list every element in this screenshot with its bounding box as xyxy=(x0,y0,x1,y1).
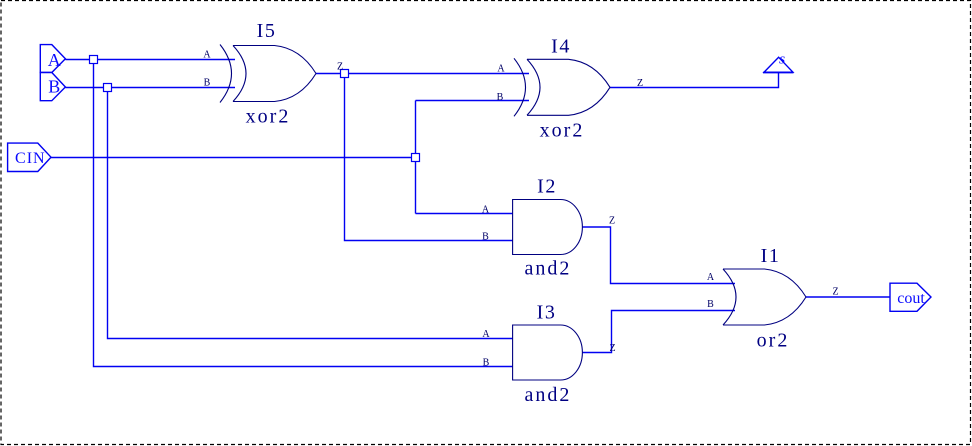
svg-text:CIN: CIN xyxy=(15,150,46,167)
svg-text:cout: cout xyxy=(897,290,925,307)
svg-text:A: A xyxy=(707,272,715,283)
svg-text:I1: I1 xyxy=(761,245,781,267)
svg-text:B: B xyxy=(497,92,504,103)
svg-text:I3: I3 xyxy=(537,302,557,324)
svg-text:B: B xyxy=(707,299,714,310)
svg-text:xor2: xor2 xyxy=(246,106,291,128)
svg-text:A: A xyxy=(497,64,505,75)
svg-text:Z: Z xyxy=(609,343,615,354)
svg-text:Z: Z xyxy=(337,62,343,73)
svg-text:xor2: xor2 xyxy=(540,120,585,142)
svg-text:A: A xyxy=(482,205,490,216)
svg-text:Z: Z xyxy=(832,287,838,298)
svg-text:B: B xyxy=(483,358,490,369)
svg-text:I2: I2 xyxy=(537,176,557,198)
svg-text:A: A xyxy=(48,50,61,70)
svg-text:B: B xyxy=(482,232,489,243)
svg-text:Z: Z xyxy=(637,78,643,89)
svg-text:and2: and2 xyxy=(525,258,572,280)
svg-text:A: A xyxy=(203,50,211,61)
svg-text:and2: and2 xyxy=(525,384,572,406)
svg-text:I5: I5 xyxy=(257,20,277,42)
svg-text:Z: Z xyxy=(609,216,615,227)
svg-text:S: S xyxy=(779,55,785,67)
svg-text:B: B xyxy=(48,77,60,97)
svg-text:B: B xyxy=(204,78,211,89)
svg-text:I4: I4 xyxy=(551,36,571,58)
svg-text:A: A xyxy=(482,329,490,340)
svg-text:or2: or2 xyxy=(757,330,790,352)
